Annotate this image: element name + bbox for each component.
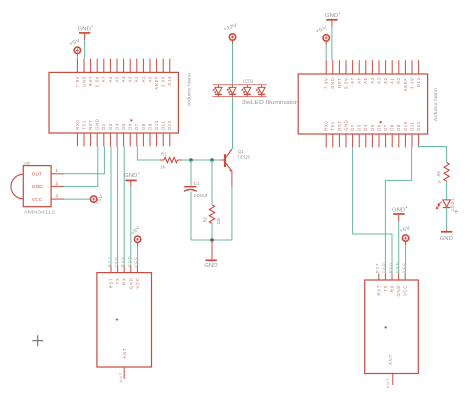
svg-text:ANT: ANT xyxy=(388,354,393,365)
svg-text:GND: GND xyxy=(325,13,339,19)
wire U3 D12 to R5 xyxy=(418,147,446,163)
wire +5V to U3 VIN pin xyxy=(325,45,327,61)
svg-text:A4: A4 xyxy=(121,76,126,83)
svg-text:A3: A3 xyxy=(128,76,133,83)
resistor R1 1k xyxy=(160,151,182,169)
svg-text:1k: 1k xyxy=(437,180,441,184)
svg-text:RST: RST xyxy=(375,262,380,273)
IC U3 Arduino Nano (right) xyxy=(298,60,438,147)
wire +5V to U4 VCC xyxy=(405,245,407,273)
svg-text:Arduino Nano: Arduino Nano xyxy=(433,87,438,121)
svg-text:GND: GND xyxy=(330,77,335,88)
supply +5V (U4) xyxy=(399,225,412,242)
svg-text:A6: A6 xyxy=(108,76,113,83)
svg-text:OUT: OUT xyxy=(32,171,43,176)
svg-text:D7: D7 xyxy=(383,124,388,131)
svg-text:Arduino Nano: Arduino Nano xyxy=(187,72,192,106)
svg-text:A3: A3 xyxy=(376,77,381,84)
svg-text:D7: D7 xyxy=(134,123,139,130)
svg-text:GND: GND xyxy=(124,173,138,179)
wire PIR OUT to U1 D2 xyxy=(64,146,104,173)
svg-text:RST: RST xyxy=(337,120,342,130)
svg-text:D2: D2 xyxy=(350,124,355,131)
svg-text:ANT: ANT xyxy=(118,372,123,383)
svg-text:VCC: VCC xyxy=(403,285,408,296)
supply +5V (U3) xyxy=(315,24,330,41)
svg-text:D6: D6 xyxy=(376,124,381,131)
svg-text:D8: D8 xyxy=(141,123,146,130)
svg-text:D4: D4 xyxy=(363,124,368,131)
svg-text:RST: RST xyxy=(376,285,381,296)
svg-text:TX: TX xyxy=(115,277,120,284)
svg-text:D8: D8 xyxy=(390,124,395,131)
capacitor C1 100uf xyxy=(184,181,208,198)
LED LED1 xyxy=(436,198,458,214)
RF module U2 (left transmitter) xyxy=(97,266,152,379)
svg-text:GND: GND xyxy=(396,285,401,297)
svg-text:7-9V: 7-9V xyxy=(324,77,329,89)
svg-text:D10: D10 xyxy=(154,120,159,130)
supply +5V (PIR) xyxy=(91,193,106,206)
wire R1 to Q1 base xyxy=(182,159,220,161)
svg-text:C1: C1 xyxy=(194,181,200,186)
wire U3 D2 to U4 RX xyxy=(353,147,392,273)
svg-text:D13: D13 xyxy=(167,76,172,86)
svg-text:D13: D13 xyxy=(416,77,421,87)
svg-text:GND: GND xyxy=(204,263,218,269)
svg-text:D11: D11 xyxy=(161,120,166,129)
resistor R2 10k xyxy=(203,205,221,225)
wire U3 D11 to U4 TX xyxy=(385,147,411,273)
svg-text:AREF: AREF xyxy=(154,76,159,90)
svg-text:LED1: LED1 xyxy=(450,198,455,211)
ground (rail) xyxy=(204,260,218,269)
svg-text:A1: A1 xyxy=(141,76,146,83)
svg-text:3.3V: 3.3V xyxy=(161,76,166,87)
svg-text:D5: D5 xyxy=(121,123,126,130)
wire ground to U2 GND xyxy=(130,187,132,266)
svg-text:A7: A7 xyxy=(101,76,106,83)
supply +5V (U2) xyxy=(130,224,142,242)
wire +12V to LED2 anode rail xyxy=(232,44,234,85)
svg-text:GND: GND xyxy=(81,76,86,87)
svg-text:D12: D12 xyxy=(167,120,172,130)
svg-text:A5: A5 xyxy=(114,76,119,83)
wire GND to U3 GND pin xyxy=(331,27,333,60)
ground (U3 top) xyxy=(325,13,340,20)
svg-text:TX: TX xyxy=(383,285,388,292)
LED array LED2 (4x) 3wLED Illuminator xyxy=(213,78,298,105)
svg-text:GND: GND xyxy=(440,236,454,242)
svg-text:D10: D10 xyxy=(403,121,408,131)
svg-text:Q1: Q1 xyxy=(238,149,245,154)
svg-text:RX: RX xyxy=(122,277,127,284)
svg-text:GND: GND xyxy=(78,26,92,32)
wire ground to U4 GND xyxy=(398,222,400,274)
svg-text:VCC: VCC xyxy=(135,277,140,288)
svg-text:A7: A7 xyxy=(350,77,355,84)
svg-text:GND: GND xyxy=(95,118,100,129)
IC U1 Arduino Nano (left) xyxy=(49,59,192,147)
junction xyxy=(189,158,193,162)
svg-text:1k: 1k xyxy=(160,165,166,170)
wire U1 D7 to R1 xyxy=(137,146,159,160)
PIR motion sensor U$6 AMN34112 xyxy=(11,162,64,216)
wire PIR GND to U1 GND xyxy=(64,146,98,186)
svg-text:RX0: RX0 xyxy=(324,121,329,131)
supply +5V xyxy=(68,37,82,54)
wire GND symbol to U1 GND pin xyxy=(84,40,86,59)
svg-text:AMN34112: AMN34112 xyxy=(24,209,56,215)
junction xyxy=(210,238,214,242)
svg-text:TX1: TX1 xyxy=(81,120,86,130)
svg-text:VCC: VCC xyxy=(32,197,43,202)
svg-text:RST: RST xyxy=(337,77,342,87)
wire junction to R2 xyxy=(211,160,213,205)
svg-text:A0: A0 xyxy=(396,77,401,84)
junction xyxy=(210,158,214,162)
svg-text:D3: D3 xyxy=(357,124,362,131)
svg-text:TIP120: TIP120 xyxy=(238,154,251,159)
svg-text:R1: R1 xyxy=(161,151,167,156)
wire U1 D4 to U2 TXD xyxy=(117,146,119,266)
svg-text:ANT: ANT xyxy=(122,348,127,359)
wire +5V to U2 VCC xyxy=(137,246,139,266)
svg-text:A5: A5 xyxy=(363,77,368,84)
wire LED1 to ground xyxy=(446,208,448,230)
wire R2 to ground rail xyxy=(211,223,213,240)
wire U1 D5 to U2 RXD xyxy=(123,146,125,266)
svg-text:RX: RX xyxy=(390,285,395,292)
svg-text:R2: R2 xyxy=(203,216,208,222)
svg-text:A0: A0 xyxy=(147,76,152,83)
svg-text:U$6: U$6 xyxy=(24,162,30,166)
svg-text:ANT: ANT xyxy=(385,378,390,389)
svg-text:RST: RST xyxy=(109,277,114,288)
wire C1 to ground rail xyxy=(190,192,192,240)
svg-text:5.5V: 5.5V xyxy=(343,77,348,88)
ground (U2) xyxy=(124,173,139,181)
svg-text:100uf: 100uf xyxy=(193,193,208,198)
ground xyxy=(78,26,93,33)
svg-text:3wLED Illuminator: 3wLED Illuminator xyxy=(242,100,297,106)
svg-text:7-9V: 7-9V xyxy=(75,76,80,88)
svg-text:RST: RST xyxy=(88,76,93,86)
wire PIR VCC to +5V xyxy=(64,198,91,200)
wire U1 D3 to U2 RST xyxy=(110,146,112,266)
svg-text:D5: D5 xyxy=(370,124,375,131)
svg-text:GND: GND xyxy=(128,277,133,289)
svg-text:GND: GND xyxy=(343,119,348,130)
wire Q1 emitter to ground rail xyxy=(231,187,233,240)
wire R5 to LED1 xyxy=(446,181,448,200)
svg-text:A6: A6 xyxy=(357,77,362,84)
svg-text:GND: GND xyxy=(392,208,406,214)
svg-text:LED2: LED2 xyxy=(243,78,254,83)
svg-text:D4: D4 xyxy=(114,123,119,130)
svg-text:A2: A2 xyxy=(383,77,388,84)
origin cross xyxy=(32,335,43,346)
svg-text:R5: R5 xyxy=(436,170,441,176)
transistor Q1 TIP120 xyxy=(220,149,250,172)
ground (U4) xyxy=(392,207,407,214)
svg-text:10k: 10k xyxy=(216,217,221,225)
supply +12V xyxy=(222,22,238,40)
resistor R5 1k xyxy=(436,163,449,185)
svg-text:D6: D6 xyxy=(128,123,133,130)
svg-text:D9: D9 xyxy=(396,124,401,131)
wire ground rail xyxy=(191,239,232,241)
svg-text:D3: D3 xyxy=(108,123,113,130)
svg-text:AREF: AREF xyxy=(403,77,408,91)
wire +5V to U1 VIN pin xyxy=(76,56,78,59)
svg-text:RST: RST xyxy=(88,119,93,129)
svg-text:GND: GND xyxy=(32,184,43,189)
svg-text:D2: D2 xyxy=(101,123,106,130)
svg-text:A2: A2 xyxy=(134,76,139,83)
wire LED2 cathode rail to Q1 collector xyxy=(232,97,234,149)
svg-text:D11: D11 xyxy=(409,121,414,130)
wire junction to C1 xyxy=(190,160,192,186)
RF module U4 (right receiver) xyxy=(365,273,419,385)
svg-text:RX0: RX0 xyxy=(75,120,80,130)
svg-text:3.3V: 3.3V xyxy=(409,77,414,88)
svg-text:A1: A1 xyxy=(390,77,395,84)
svg-text:5.5V: 5.5V xyxy=(95,76,100,87)
svg-text:D12: D12 xyxy=(416,121,421,131)
svg-text:D9: D9 xyxy=(147,123,152,130)
svg-text:TX1: TX1 xyxy=(330,121,335,131)
svg-text:A4: A4 xyxy=(370,77,375,84)
ground (LED1) xyxy=(440,230,454,242)
